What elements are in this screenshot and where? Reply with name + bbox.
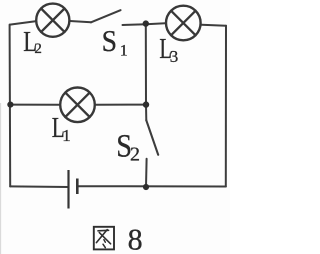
svg-text:2: 2 (130, 144, 140, 166)
svg-text:3: 3 (170, 47, 179, 66)
svg-text:1: 1 (120, 43, 128, 60)
svg-text:1: 1 (62, 126, 71, 145)
svg-text:S: S (102, 23, 117, 58)
svg-text:2: 2 (34, 41, 42, 57)
svg-text:8: 8 (128, 221, 143, 254)
